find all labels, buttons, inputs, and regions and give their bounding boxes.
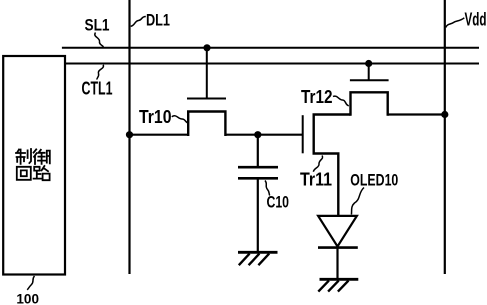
transistor Tr11 channel step [314, 115, 351, 217]
diode OLED10 triangle [318, 216, 357, 247]
leader squiggle C10 [265, 181, 270, 196]
label CTL1 [82, 78, 113, 99]
node A dot (Tr10 drain / C10 / Tr11 gate) [254, 131, 261, 138]
wire Tr12 gate lead [368, 64, 370, 81]
svg-text:C10: C10 [267, 193, 290, 212]
leader squiggle CTL1 [97, 65, 104, 80]
node dot on Vdd [441, 111, 448, 118]
leader squiggle Vdd [446, 18, 465, 28]
制 [16, 149, 31, 164]
transistor Tr11 gate bar (vertical) [302, 115, 304, 153]
svg-text:Tr11: Tr11 [300, 170, 332, 190]
wire node A down to C10 [257, 135, 259, 167]
transistor Tr12 gate bar [350, 79, 389, 81]
label Tr10 [139, 107, 172, 127]
label DL1 [146, 11, 170, 30]
回 [17, 167, 31, 180]
leader squiggle Tr10 [172, 116, 189, 123]
leader squiggle to 100 [27, 276, 34, 290]
transistor Tr12 channel [351, 92, 388, 115]
svg-text:Tr10: Tr10 [139, 107, 172, 127]
leader squiggle Tr12 [333, 96, 349, 106]
label Tr11 [300, 170, 332, 190]
wire Tr12 drain to Vdd [388, 113, 445, 115]
label C10 [267, 193, 290, 212]
capacitor C10 top plate [238, 166, 278, 169]
svg-text:SL1: SL1 [85, 16, 110, 35]
leader squiggle Tr11 [313, 156, 322, 172]
ground under C10 [238, 252, 278, 265]
wire Tr10 gate lead [206, 48, 208, 99]
wire Tr10 drain to node A and Tr11 gate [225, 134, 302, 136]
wire SL1 horizontal scan line [62, 47, 479, 49]
svg-text:DL1: DL1 [146, 11, 170, 30]
wire CTL1 horizontal control line [65, 63, 479, 65]
kanji text 制御回路 (control circuit) [16, 149, 50, 180]
transistor Tr10 channel [188, 112, 225, 137]
wire DL1 to Tr10 source [130, 134, 189, 136]
label OLED10 [350, 171, 398, 190]
label Tr12 [301, 87, 333, 107]
label Vdd [465, 10, 487, 30]
svg-text:OLED10: OLED10 [350, 171, 398, 190]
ground under OLED10 [318, 279, 358, 291]
leader squiggle OLED10 [351, 188, 364, 215]
control circuit block 100 [3, 56, 65, 275]
御 [34, 149, 50, 164]
node dot on SL1 (Tr10 gate tap) [203, 44, 210, 51]
svg-text:Vdd: Vdd [465, 10, 487, 30]
svg-text:CTL1: CTL1 [82, 78, 113, 99]
wire OLED10 cathode to ground [336, 248, 338, 280]
wire Vdd vertical supply line [444, 0, 446, 274]
leader squiggle SL1 [95, 33, 104, 47]
wire C10 to ground [257, 178, 259, 252]
capacitor C10 bottom plate [238, 177, 278, 180]
transistor Tr10 gate bar [187, 98, 226, 100]
leader squiggle DL1 [131, 17, 146, 27]
label SL1 [85, 16, 110, 35]
svg-text:Tr12: Tr12 [301, 87, 333, 107]
node dot on DL1 (Tr10 source) [126, 131, 133, 138]
node dot on CTL1 (Tr12 gate tap) [365, 60, 372, 67]
wire DL1 vertical data line [128, 0, 130, 274]
svg-text:100: 100 [16, 292, 39, 305]
路 [34, 166, 50, 180]
label 100 [16, 292, 39, 305]
diode OLED10 cathode bar [318, 246, 358, 249]
